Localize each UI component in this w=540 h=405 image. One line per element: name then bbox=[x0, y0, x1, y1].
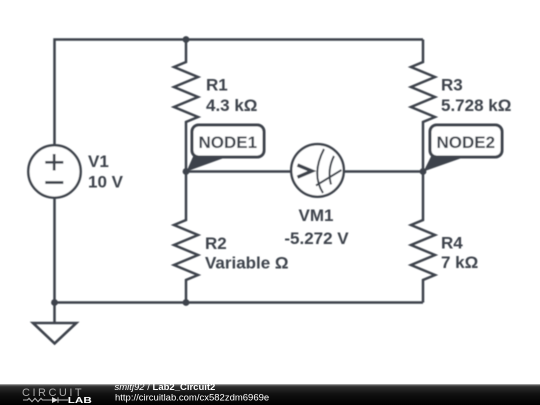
resistor R1 bbox=[174, 40, 198, 172]
footer bar bbox=[0, 384, 540, 405]
svg-text:-5.272 V: -5.272 V bbox=[284, 229, 349, 248]
label R4 value bbox=[441, 234, 478, 273]
label V1 value bbox=[88, 152, 124, 192]
net label NODE2 bbox=[424, 125, 503, 172]
svg-text:LAB: LAB bbox=[68, 396, 93, 405]
net label NODE1 bbox=[187, 125, 265, 172]
svg-text:5.728 kΩ: 5.728 kΩ bbox=[441, 96, 511, 115]
label R1 value bbox=[206, 76, 257, 116]
CircuitLab logo wordmark CIRCUIT bbox=[22, 387, 84, 399]
svg-text:http://circuitlab.com/cx582zdm: http://circuitlab.com/cx582zdm6969e bbox=[115, 392, 269, 403]
svg-text:R1: R1 bbox=[206, 76, 228, 95]
wire: bottom rail bbox=[55, 301, 424, 304]
svg-text:7 kΩ: 7 kΩ bbox=[441, 253, 478, 272]
voltmeter VM1 bbox=[291, 144, 344, 197]
svg-text:R4: R4 bbox=[441, 234, 463, 253]
svg-text:NODE2: NODE2 bbox=[437, 133, 496, 152]
voltage source V1 bbox=[28, 145, 80, 197]
svg-text:4.3 kΩ: 4.3 kΩ bbox=[206, 96, 257, 115]
resistor R3 bbox=[411, 40, 435, 172]
label VM1 value bbox=[284, 206, 349, 248]
svg-text:V1: V1 bbox=[88, 152, 109, 171]
ground bbox=[33, 303, 76, 344]
label R3 value bbox=[441, 76, 511, 116]
svg-text:R3: R3 bbox=[441, 76, 463, 95]
bottom-left junction dot bbox=[51, 299, 58, 306]
wire: node1 to VM1 left terminal bbox=[186, 170, 292, 173]
wire: top rail junction A to right corner bbox=[186, 38, 423, 41]
label R2 value bbox=[205, 234, 289, 273]
node A junction dot (top rail) bbox=[183, 36, 190, 43]
wire: V1 bottom to bottom-left junction bbox=[53, 197, 56, 303]
svg-text:NODE1: NODE1 bbox=[199, 133, 258, 152]
svg-text:VM1: VM1 bbox=[299, 206, 334, 225]
svg-text:R2: R2 bbox=[205, 234, 227, 253]
svg-text:10 V: 10 V bbox=[88, 173, 124, 192]
resistor R2 bbox=[174, 172, 198, 303]
resistor R4 bbox=[411, 172, 435, 303]
node NODE2 junction dot bbox=[420, 168, 427, 175]
svg-text:Variable Ω: Variable Ω bbox=[205, 254, 289, 273]
node NODE1 junction dot bbox=[183, 168, 190, 175]
wire: V1 top to top-left corner to junction A bbox=[55, 40, 187, 147]
CircuitLab logo resistor+diode glyph bbox=[23, 397, 68, 402]
wire: VM1 right terminal to node2 bbox=[343, 170, 423, 173]
bottom-middle junction dot bbox=[183, 299, 190, 306]
